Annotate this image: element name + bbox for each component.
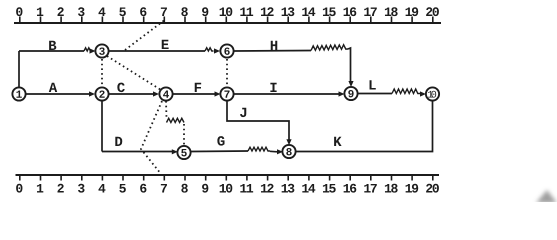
label F: [195, 83, 201, 92]
node 7: [220, 87, 233, 100]
label B: [49, 41, 56, 50]
bottom time scale ruler line: [16, 174, 440, 176]
label E: [162, 40, 169, 49]
label I: [270, 83, 276, 92]
scan artifact mark bottom right: [536, 190, 557, 203]
activity L arrow 9-10 with wavy float: [358, 89, 426, 97]
activity H arrow 6-9 with wavy float and corner down: [234, 45, 354, 87]
node 3: [95, 44, 108, 57]
bottom ruler numbers 0-20: [16, 184, 439, 193]
activity D arrow 2-5: [102, 149, 178, 154]
activity K arrow 8-10 (right then up): [295, 101, 433, 152]
wire from node 2 down to D line: [101, 101, 103, 152]
activity C arrow 2-4: [109, 91, 159, 96]
activity G arrow 5-8 with wavy float: [191, 147, 283, 154]
top time scale ruler line: [14, 22, 441, 24]
activity A arrow 1-2: [26, 91, 95, 96]
label J: [240, 108, 246, 117]
node 10: [426, 87, 439, 100]
node 2: [95, 87, 108, 100]
node 6: [220, 44, 233, 57]
dotted guide from E line up to top ruler tick 7: [125, 21, 164, 51]
label D: [115, 137, 122, 146]
node 8: [282, 145, 295, 158]
dummy link 4-5: dotted down, wavy, dotted down: [166, 101, 184, 145]
activity E arrow 3-6 with wavy float: [109, 48, 220, 54]
label L: [370, 80, 376, 89]
dotted guide from node 4 down to bottom ruler (bent): [141, 101, 162, 174]
activity J arrow 7-8 (down, right, down): [227, 101, 292, 145]
activity F arrow 4-7: [173, 91, 221, 96]
label G: [217, 136, 224, 146]
label K: [334, 137, 341, 146]
dummy link 3-2 dotted vertical: [101, 59, 103, 86]
node 4: [159, 87, 172, 100]
label H: [271, 41, 278, 50]
dummy link 6-7 dotted vertical: [226, 59, 228, 86]
bottom ruler ticks: [20, 175, 433, 181]
label C: [117, 83, 124, 93]
node 1: [12, 87, 25, 100]
top ruler ticks: [20, 17, 433, 24]
node 9: [344, 87, 357, 100]
activity I arrow 7-9: [234, 91, 345, 96]
wire from node 1 up to B line: [18, 51, 20, 88]
activity B arrow 1-3 with wavy float: [19, 48, 96, 54]
dotted link 3-4 diagonal: [107, 56, 161, 90]
label A: [49, 83, 57, 92]
top ruler numbers 0-20: [16, 7, 439, 16]
node 5: [177, 146, 190, 159]
